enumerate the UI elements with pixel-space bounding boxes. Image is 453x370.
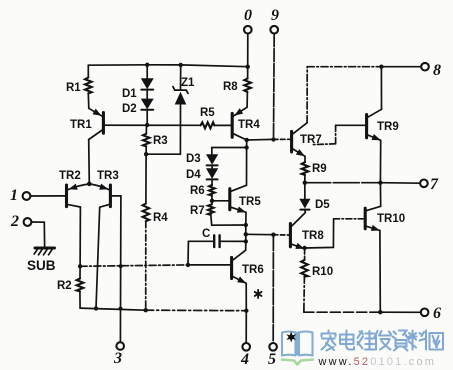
- wire TR1 collector down: [88, 140, 91, 184]
- resistor R3: [143, 125, 150, 154]
- terminal 9 circle: [270, 26, 278, 34]
- svg-text:4: 4: [240, 351, 249, 368]
- svg-text:R5: R5: [200, 107, 215, 119]
- svg-text:www.520101.com: www.520101.com: [318, 356, 437, 368]
- transistor TR4: [232, 107, 247, 140]
- svg-text:TR7: TR7: [300, 134, 322, 146]
- resistor R5: [201, 122, 215, 128]
- svg-text:D1: D1: [122, 88, 137, 100]
- diode D5: [299, 183, 310, 213]
- wire TR9 emitter down: [379, 140, 381, 182]
- terminal 6 circle: [421, 309, 429, 317]
- wire TR6 emitter down to 4: [245, 283, 247, 343]
- diode D2: [141, 99, 154, 125]
- wire TR10 collector up: [379, 183, 381, 207]
- wire top rail: [88, 65, 247, 67]
- transistor TR1: [89, 108, 104, 139]
- svg-text:C: C: [202, 228, 210, 240]
- wire TR3 base to terminal 3: [112, 196, 121, 342]
- svg-text:R3: R3: [153, 135, 168, 147]
- terminal 3 circle: [116, 342, 124, 350]
- svg-text:R4: R4: [153, 212, 168, 224]
- wire R1 branch top: [87, 65, 89, 77]
- char wei: [358, 331, 375, 350]
- resistor R10: [301, 248, 308, 309]
- svg-text:TR9: TR9: [377, 121, 399, 133]
- svg-text:TR5: TR5: [239, 196, 261, 208]
- watermark chinese text (stylized strokes): [322, 331, 444, 351]
- asterisk star near terminal 5 on book: [286, 332, 296, 343]
- char wang: [430, 333, 444, 350]
- wire R1 to TR1 emitter: [87, 93, 90, 108]
- wire R5 to TR4 base: [214, 124, 232, 126]
- diode D4: [206, 168, 218, 185]
- zener Z1: [146, 65, 188, 154]
- wire TR1 base line to TR4: [105, 124, 201, 126]
- svg-text:TR10: TR10: [377, 213, 405, 225]
- svg-text:0: 0: [244, 7, 252, 24]
- svg-text:R8: R8: [223, 81, 238, 93]
- transistor TR7: [292, 123, 308, 157]
- svg-text:R10: R10: [312, 266, 333, 278]
- diode D3: [206, 148, 247, 169]
- terminal 9 stub: [273, 34, 276, 140]
- transistor TR8: [290, 213, 305, 249]
- terminal 5 stub: [272, 235, 274, 343]
- ground SUB: [34, 248, 54, 255]
- terminal 1 circle: [23, 192, 31, 200]
- transistor TR9: [367, 109, 382, 140]
- asterisk near TR6: [255, 290, 262, 298]
- wire terminal 6 line: [304, 309, 421, 312]
- svg-text:D4: D4: [186, 169, 201, 181]
- svg-text:R6: R6: [190, 185, 205, 197]
- diode D1: [141, 65, 154, 99]
- wire terminal 1 to TR2 base: [30, 195, 66, 197]
- watermark www.520101.com: [318, 356, 437, 368]
- svg-text:5: 5: [268, 351, 276, 368]
- svg-text:R9: R9: [312, 163, 327, 175]
- terminal 4 circle: [242, 343, 250, 351]
- svg-text:1: 1: [10, 187, 18, 204]
- watermark logo book icon: [282, 332, 313, 356]
- wire TR4 node to TR7 base: [247, 138, 274, 141]
- svg-text:TR3: TR3: [97, 170, 119, 182]
- transistor TR6: [232, 250, 247, 283]
- svg-text:9: 9: [271, 7, 279, 24]
- wire node to TR8 base: [246, 233, 274, 235]
- svg-text:8: 8: [433, 62, 441, 79]
- wire TR9 base route: [313, 125, 365, 144]
- svg-text:TR6: TR6: [242, 264, 264, 276]
- svg-text:7: 7: [430, 176, 439, 193]
- wire TR7 emitter to R9: [304, 156, 306, 162]
- svg-text:Z1: Z1: [181, 77, 195, 89]
- wire TR3 collector down: [96, 207, 100, 308]
- svg-text:TR1: TR1: [70, 119, 92, 131]
- wire TR5 emitter node down: [245, 212, 247, 250]
- terminal 2 circle: [24, 218, 32, 226]
- transistor TR5: [230, 185, 246, 212]
- watermark green swoosh: [281, 360, 314, 365]
- resistor R2: [77, 266, 84, 308]
- svg-text:R2: R2: [57, 280, 72, 292]
- terminal 0 stub: [247, 34, 249, 67]
- resistor R8: [244, 67, 251, 108]
- terminal 8 circle: [421, 63, 429, 71]
- wire TR9 collector up: [380, 67, 382, 110]
- wire bottom bus: [80, 308, 246, 311]
- char jia: [322, 331, 336, 351]
- wire TR8 emitter to TR10 base: [305, 219, 365, 248]
- svg-text:D3: D3: [186, 153, 201, 165]
- wire TR4 collector node down: [246, 140, 248, 185]
- svg-text:D2: D2: [122, 103, 137, 115]
- svg-text:TR4: TR4: [238, 119, 260, 131]
- transistor TR3: [89, 184, 110, 208]
- resistor R4: [143, 154, 150, 310]
- svg-text:TR2: TR2: [59, 170, 81, 182]
- wire R6 to TR5 base: [212, 200, 230, 202]
- resistor R6: [209, 185, 215, 201]
- svg-text:D5: D5: [315, 199, 330, 211]
- wire left bus upper: [80, 265, 232, 266]
- transistor TR2: [67, 184, 90, 207]
- wire TR2 collector down: [79, 207, 81, 266]
- svg-text:SUB: SUB: [27, 258, 56, 273]
- char xiu: [374, 331, 391, 350]
- svg-text:TR8: TR8: [302, 230, 324, 242]
- resistor R7: [208, 201, 246, 225]
- resistor R1: [85, 78, 92, 94]
- capacitor C: [188, 235, 245, 247]
- svg-text:2: 2: [10, 213, 19, 230]
- terminal 7 circle: [420, 180, 428, 188]
- svg-text:R1: R1: [66, 82, 81, 94]
- resistor R9: [302, 162, 309, 183]
- wire C left corner down: [187, 241, 189, 265]
- wire terminal 2 to SUB: [31, 222, 44, 246]
- char dian: [340, 331, 354, 350]
- transistor TR10: [365, 206, 381, 231]
- wire TR7 collector up: [306, 67, 308, 123]
- svg-text:6: 6: [433, 305, 441, 322]
- char liao: [409, 331, 427, 350]
- svg-text:R7: R7: [190, 205, 205, 217]
- wire TR10 emitter down: [379, 231, 381, 313]
- char zi: [393, 331, 409, 351]
- terminal 0 circle: [244, 26, 252, 34]
- terminal 5 circle: [269, 343, 277, 351]
- wire terminal 7 line: [305, 182, 420, 185]
- wire top rail right to terminal 8: [307, 66, 421, 68]
- svg-text:3: 3: [113, 350, 122, 367]
